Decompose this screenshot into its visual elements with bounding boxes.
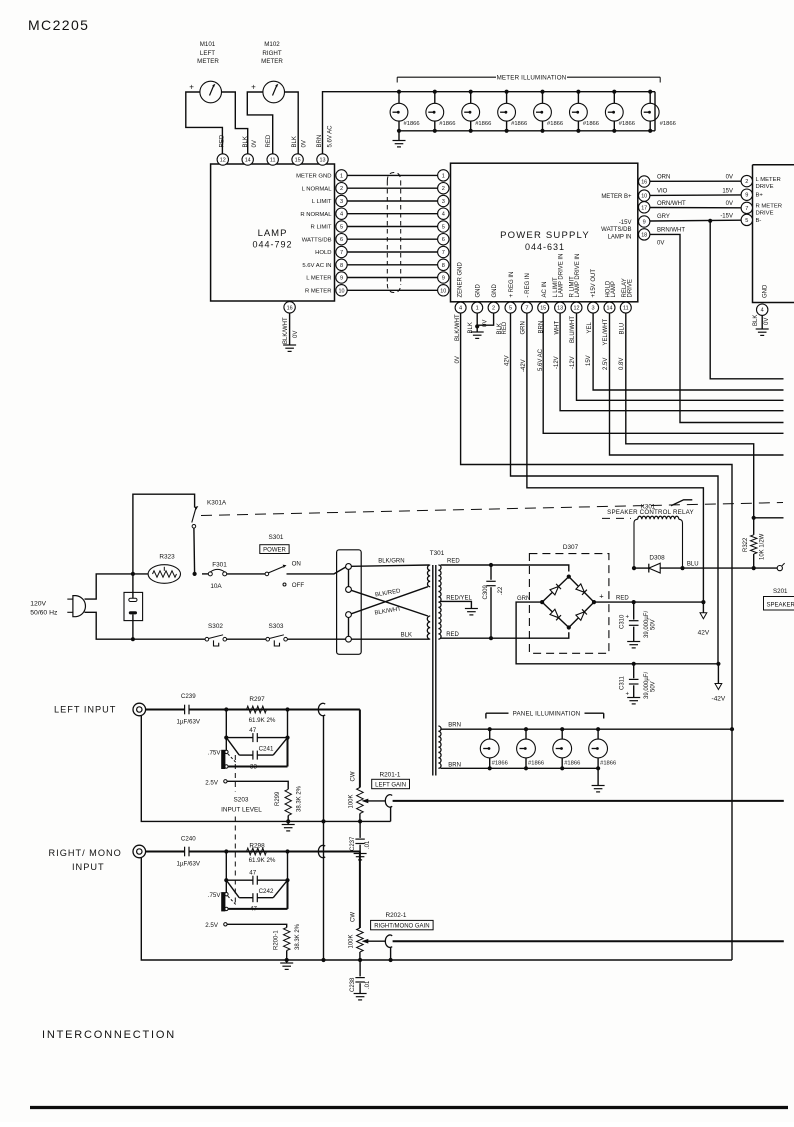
svg-text:#1866: #1866 [492,760,508,766]
svg-text:7: 7 [525,306,528,312]
pin 2 POWER SUPPLY left [438,183,449,194]
svg-text:.22: .22 [498,586,504,595]
svg-text:LAMP IN: LAMP IN [608,235,632,241]
svg-text:11: 11 [270,158,276,164]
svg-text:+: + [189,83,194,92]
meter M102 [251,41,284,103]
wire lamp bus top [399,91,655,93]
lamp DS101 #1866 [390,90,420,133]
wire BLK primary bottom [351,633,429,640]
ground R299 [282,821,295,831]
wire S203A common thick [228,738,287,767]
ground C237 [354,854,367,860]
svg-text:50V: 50V [650,619,656,630]
svg-text:M101: M101 [200,41,216,48]
svg-text:5.6V AC: 5.6V AC [538,348,544,371]
svg-text:MC2205: MC2205 [28,17,89,33]
wire pin2 GND (BLK/RED 0V) [477,313,493,325]
svg-text:K301A: K301A [207,500,227,507]
pin 16 POWER SUPPLY right [639,176,650,187]
svg-text:RIGHT/ MONO: RIGHT/ MONO [49,848,122,858]
svg-text:10: 10 [339,288,345,294]
diode D307-3 lower left [550,609,559,617]
wire right input line [189,851,360,853]
ground C310 [627,642,640,648]
diode D307-4 lower right [576,612,585,620]
svg-text:ORN/WHT: ORN/WHT [657,201,686,207]
terminal strip [337,550,362,655]
wire relay drive to edge [754,517,784,519]
pin 17 POWER SUPPLY right [639,202,650,213]
svg-text:BLU: BLU [687,561,699,567]
svg-text:044-631: 044-631 [525,242,565,252]
svg-text:5: 5 [340,225,343,231]
svg-text:12: 12 [220,158,226,164]
arrow 42V [698,602,710,636]
svg-text:BRN: BRN [448,723,461,729]
capacitor C241 47 [224,727,289,752]
capacitor C238 .01 [350,960,371,994]
labels LAMP right pins [296,174,332,295]
svg-text:BLK/WHT: BLK/WHT [283,317,289,344]
ground POWER SUPPLY pins 1-2 [471,326,484,338]
svg-text:GRN: GRN [517,596,530,602]
svg-text:3: 3 [340,199,343,205]
capacitor C310 39,000uF/50V [620,602,657,641]
resistor R322 10K 1/2W [743,518,765,568]
svg-text:BRN: BRN [539,321,545,334]
wire shield right output to bus [390,947,392,960]
svg-text:BLU/WHT: BLU/WHT [570,316,576,343]
svg-text:D308: D308 [649,555,665,562]
switch S301 POWER [260,534,346,589]
labels POWER SUPPLY bottom pins [458,254,634,298]
svg-text:RED: RED [446,632,459,638]
svg-text:BLU: BLU [619,323,625,335]
pin 5 POWER SUPPLY bottom [505,302,516,313]
wire secondary RED/YEL center tap [441,595,473,608]
switch S203B input level [208,892,236,911]
lamp DS104 #1866 [498,90,528,133]
svg-text:13: 13 [557,306,563,312]
svg-text:BRN/WHT: BRN/WHT [657,228,685,234]
pin 4 LAMP right [336,208,347,219]
svg-text:61.9K 2%: 61.9K 2% [249,857,276,864]
potentiometer R202-1 RIGHT/MONO GAIN 100K [348,852,433,961]
module output board (right edge) [753,165,794,303]
wire right node B down [287,852,289,881]
svg-text:9: 9 [745,193,748,199]
svg-text:R200-1: R200-1 [274,930,280,950]
pin 7 POWER SUPPLY left [438,246,449,257]
svg-text:DRIVE: DRIVE [628,279,634,297]
pin 12 LAMP top [217,154,228,165]
svg-text:C242: C242 [259,888,274,895]
wire secondary RED top [441,558,569,571]
svg-text:9: 9 [643,220,646,226]
svg-text:5: 5 [442,225,445,231]
wire secondary RED bottom [441,632,569,638]
lamp DS301 #1866 panel [480,727,508,770]
wire BLK/WHT primary cross [351,587,428,617]
svg-text:BRN: BRN [448,762,461,768]
svg-text:#1866: #1866 [583,121,599,127]
pin 4 output board GND [757,284,769,315]
pin 18 POWER SUPPLY right [639,229,650,240]
node right input A [224,849,228,853]
wire pin14 HOLD LAMP (YEL/WHT 2.5V) [610,313,784,455]
svg-text:1µF/63V: 1µF/63V [177,719,201,726]
svg-text:0V: 0V [726,201,733,207]
svg-text:S201: S201 [773,588,788,595]
pin 13 LAMP top [317,154,328,165]
pin 2 output board [741,175,752,186]
pin 1 LAMP right [336,170,347,181]
pin 7 LAMP right [336,246,347,257]
svg-text:10: 10 [440,288,446,294]
node shield on right bus [321,958,325,962]
node C309 top [489,563,493,567]
winding T301 primary lower [427,616,430,639]
svg-text:4: 4 [442,212,445,218]
pin 13 POWER SUPPLY bottom [555,302,566,313]
pin 9 POWER SUPPLY right [639,216,650,227]
svg-text:#1866: #1866 [528,760,544,766]
svg-text:47: 47 [250,906,257,913]
svg-text:2: 2 [340,186,343,192]
svg-text:RIGHT: RIGHT [262,50,281,57]
pin 10 POWER SUPPLY right [639,190,650,201]
shield left output cable [385,795,392,807]
svg-text:42V: 42V [698,630,710,637]
winding T301 secondary panel lamps [438,726,441,768]
svg-text:0V: 0V [483,320,489,327]
svg-text:C310: C310 [620,614,626,629]
svg-text:0V: 0V [455,356,461,363]
wire M101 to pin 12 (RED) [186,92,223,154]
label PANEL ILLUMINATION bracket [486,711,604,719]
svg-text:50/60 Hz: 50/60 Hz [30,610,58,617]
svg-text:INPUT LEVEL: INPUT LEVEL [221,807,262,814]
wire K301A control dashed link [201,503,783,516]
wire ORN 0V (pin16 to pin2) [650,174,741,181]
svg-text:C241: C241 [259,745,274,752]
bridge diamond wires [540,575,596,630]
svg-text:0V: 0V [293,331,299,338]
wire shield bus vertical [323,716,325,961]
resistor R297 61.9K 2% [247,696,276,724]
wire right gain output [393,940,784,942]
ground C238 [354,994,367,1000]
svg-text:3: 3 [592,306,595,312]
wire relay dashed link [602,517,631,519]
wire panel BRN bottom [441,762,599,768]
capacitor 47 (lower) [226,880,287,902]
svg-text:HOLD: HOLD [315,250,331,256]
svg-text:044-792: 044-792 [252,240,292,250]
ground meter lamps [393,131,406,147]
wire pin4 ZENER GND (BLK/WHT 0V) [461,313,732,960]
labels POWER SUPPLY right side [601,194,632,240]
svg-text:#1866: #1866 [439,121,455,127]
svg-text:BLK: BLK [292,136,298,147]
diode D307-2 upper right [576,584,585,592]
svg-text:LEFT INPUT: LEFT INPUT [54,705,116,715]
svg-text:42V: 42V [505,355,511,366]
pin 14 POWER SUPPLY bottom [604,302,615,313]
pin 8 LAMP right [336,259,347,270]
svg-text:15V: 15V [722,188,733,194]
wire GRY -15V (pin9 to pin5) [650,213,741,221]
node 42V takeoff [701,600,705,604]
svg-text:YEL: YEL [587,321,593,333]
svg-text:5: 5 [745,218,748,224]
terminal BLU connector [777,563,784,571]
svg-text:RED/YEL: RED/YEL [446,595,472,601]
svg-text:R METER: R METER [756,203,783,209]
svg-text:RED: RED [266,134,272,147]
svg-text:#1866: #1866 [619,121,635,127]
svg-text:2: 2 [745,179,748,185]
svg-text:YEL/WHT: YEL/WHT [603,318,609,345]
svg-text:100K: 100K [348,794,354,808]
svg-text:6: 6 [340,237,343,243]
svg-text:4: 4 [340,212,343,218]
svg-text:R LIMIT: R LIMIT [311,225,332,231]
wire pin 16 to ground (BLK/WHT 0V) [283,313,299,345]
fuse F301 10A [202,562,265,591]
label METER ILLUMINATION bracket [397,75,660,83]
pin 10 POWER SUPPLY left [438,285,449,296]
wire left return bus [141,716,390,822]
pin 16 LAMP bottom [284,302,295,313]
pin 3 POWER SUPPLY left [438,195,449,206]
ground panel lamps [592,768,605,792]
svg-text:-12V: -12V [554,356,560,369]
ground center tap [465,609,478,615]
wires LAMP to POWER SUPPLY pins 1-10 [347,175,437,290]
diode D307-1 upper left [550,587,559,595]
svg-text:C240: C240 [181,835,196,842]
lamp DS102 #1866 [426,90,456,133]
plug P301 [67,596,85,617]
meter M101 [189,41,221,103]
svg-text:.01: .01 [365,840,371,849]
capacitor C239 1uF/63V [146,693,201,726]
wire AC neutral [85,612,206,639]
pin 14 LAMP top [242,154,253,165]
svg-text:11: 11 [623,306,629,312]
svg-text:0V: 0V [252,140,258,147]
svg-text:BLK: BLK [753,315,759,326]
shield right output cable [385,935,392,947]
wire left input line [189,709,360,711]
svg-text:BLK/GRN: BLK/GRN [378,558,404,564]
lamp DS105 #1866 [534,90,564,133]
svg-text:9: 9 [442,276,445,282]
wire 2.5V tap right [205,922,286,929]
wire 2.5V tap left [205,779,288,789]
pin 15 POWER SUPPLY bottom [538,302,549,313]
svg-text:4: 4 [459,306,462,312]
pin 5 LAMP right [336,221,347,232]
svg-text:#1866: #1866 [511,121,527,127]
svg-text:+: + [626,615,630,621]
node pin1 ground junction [475,324,479,328]
svg-text:C309: C309 [483,584,489,599]
ground R200-1 [280,960,293,969]
svg-text:38.3K 2%: 38.3K 2% [295,923,301,950]
svg-text:D307: D307 [563,544,579,551]
svg-text:C311: C311 [620,675,626,690]
pin 9 LAMP right [336,272,347,283]
pin 7 POWER SUPPLY bottom [521,302,532,313]
svg-text:ORN: ORN [657,174,670,180]
svg-text:RED: RED [447,558,460,564]
svg-text:39,000µF/: 39,000µF/ [644,611,650,638]
svg-text:GRY: GRY [657,214,670,220]
shield right input cable [318,845,325,857]
svg-text:M102: M102 [264,41,280,48]
svg-text:9: 9 [340,276,343,282]
svg-text:METER: METER [261,58,283,65]
svg-text:ZENER GND: ZENER GND [458,261,464,297]
svg-text:AC IN: AC IN [542,281,548,297]
wire pin 13 to meter illumination (BRN 5.6V AC) [323,92,400,154]
svg-text:R202-1: R202-1 [386,912,407,919]
svg-text:R METER: R METER [305,288,332,294]
wire pin5 +REG IN (BLK/RED 42V) [511,313,719,664]
page border bottom [30,1106,788,1109]
svg-text:#1866: #1866 [660,121,676,127]
switch S302 thermal cutout [205,623,266,646]
resistor R200-1 38.3K 2% [274,923,301,960]
svg-text:S302: S302 [208,623,223,630]
svg-text:0V: 0V [302,140,308,147]
pin 10 LAMP right [336,285,347,296]
jack J1 left input [133,703,146,716]
winding T301 primary upper [427,565,430,587]
labels output board pins [756,177,783,224]
relay K301 SPEAKER CONTROL RELAY coil [607,504,694,569]
label 120V 50/60 Hz [30,601,58,617]
node shield right output [389,958,393,962]
svg-text:LEFT: LEFT [200,50,215,57]
capacitor 33 (lower) [226,738,287,760]
svg-text:F301: F301 [212,562,227,569]
svg-text:-42V: -42V [712,696,726,703]
node R299 ground [286,819,290,823]
svg-text:BLK: BLK [401,633,412,639]
svg-text:INPUT: INPUT [72,862,105,872]
pin 11 LAMP top [267,154,278,165]
svg-text:BRN: BRN [317,135,323,148]
node relay drive junction [752,516,756,520]
svg-text:WATTS/DB: WATTS/DB [302,237,332,243]
pin 3 POWER SUPPLY bottom [588,302,599,313]
pin 12 POWER SUPPLY bottom [571,302,582,313]
svg-text:L LIMIT: L LIMIT [312,199,332,205]
wire GRN bridge negative to -42V rail [516,596,718,664]
svg-text:4: 4 [761,308,764,314]
svg-text:14: 14 [607,306,613,312]
transformer T301 core [430,550,445,776]
svg-text:15: 15 [540,306,546,312]
svg-text:RED: RED [616,596,629,602]
svg-text:L NORMAL: L NORMAL [302,186,333,192]
svg-text:18: 18 [641,232,647,238]
svg-text:C238: C238 [350,977,356,992]
svg-text:100K: 100K [348,934,354,948]
svg-text:0.8V: 0.8V [619,358,625,370]
svg-text:7: 7 [442,250,445,256]
relay contact K301A [133,494,227,574]
svg-text:BLK/WHT: BLK/WHT [455,314,461,341]
wire node B down [287,710,289,738]
svg-text:15V: 15V [586,355,592,366]
lamp DS303 #1866 panel [553,727,581,770]
node left input A [224,707,228,711]
ground LAMP pin 16 [283,345,296,351]
svg-text:RIGHT/MONO GAIN: RIGHT/MONO GAIN [374,924,429,930]
svg-text:B-: B- [756,218,762,224]
svg-text:+15V OUT: +15V OUT [591,269,597,298]
resistor R298 61.9K 2% [247,842,276,864]
svg-text:DRIVE: DRIVE [756,210,774,216]
svg-text:-12V: -12V [570,356,576,369]
svg-text:BLK: BLK [468,322,474,333]
wire S203B common thick [228,880,287,909]
wire BLU relay drive [683,561,778,568]
switch S203 gang link dashed [221,755,262,903]
svg-text:5.6V AC: 5.6V AC [327,125,333,148]
node R322 bottom [752,566,756,570]
svg-text:-15V: -15V [619,220,632,226]
svg-text:1: 1 [442,173,445,179]
svg-text:61.9K 2%: 61.9K 2% [249,717,276,724]
svg-text:8: 8 [340,263,343,269]
svg-text:10A: 10A [210,583,222,590]
svg-text:120V: 120V [30,601,46,608]
capacitor C237 .01 [350,821,371,853]
wire VIO 15V (pin10 to pin9) [650,188,741,195]
svg-text:38.3K 2%: 38.3K 2% [297,785,303,812]
svg-text:14: 14 [245,158,251,164]
svg-text:GND: GND [492,284,498,298]
svg-text:47: 47 [249,870,256,877]
svg-text:.01: .01 [365,980,371,989]
svg-text:3: 3 [442,199,445,205]
svg-text:0V: 0V [764,318,770,325]
svg-text:#1866: #1866 [564,760,580,766]
wire pin15 AC IN (BRN 5.6V AC) [543,313,783,433]
svg-text:R322: R322 [743,537,749,552]
svg-text:CW: CW [350,912,356,922]
label RIGHT/MONO INPUT [49,848,122,872]
svg-text:R201-1: R201-1 [380,771,401,778]
wire BRN/WHT 0V (pin18 down) [650,228,784,423]
pin 5 output board [741,214,752,225]
svg-text:#1866: #1866 [547,121,563,127]
node R323 right junction [193,572,197,576]
svg-text:15: 15 [295,158,301,164]
node shield on left bus [321,819,325,823]
svg-text:ON: ON [292,561,301,568]
svg-text:DRIVE: DRIVE [756,184,774,190]
lamp DS107 #1866 [605,90,635,133]
wire relay pointer [671,500,692,506]
wire pin12 R LIMIT (BLU/WHT -12V) [577,313,784,400]
